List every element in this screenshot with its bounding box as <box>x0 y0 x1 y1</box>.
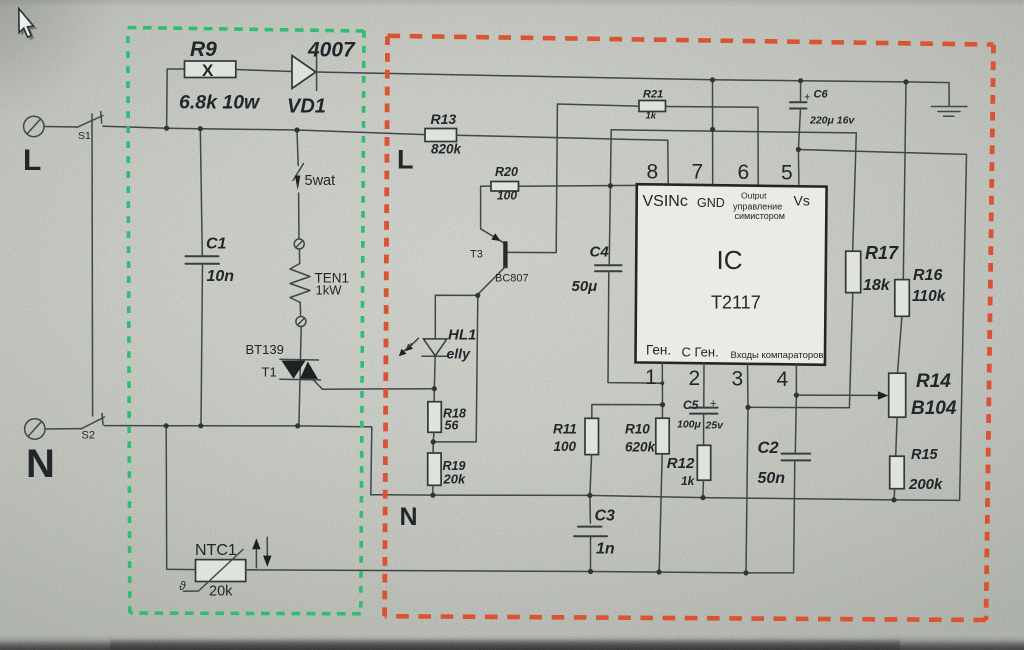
svg-text:Ген.: Ген. <box>646 343 671 358</box>
svg-text:820k: 820k <box>431 142 463 157</box>
svg-text:S1: S1 <box>78 130 91 142</box>
svg-text:VD1: VD1 <box>287 96 326 118</box>
svg-text:18k: 18k <box>863 277 891 294</box>
svg-text:620k: 620k <box>625 440 657 455</box>
svg-text:20k: 20k <box>443 472 466 487</box>
svg-text:R9: R9 <box>190 38 217 61</box>
svg-text:1kW: 1kW <box>316 283 343 298</box>
svg-text:56: 56 <box>445 419 460 433</box>
svg-text:+: + <box>804 92 810 104</box>
svg-text:T3: T3 <box>470 249 483 261</box>
svg-text:X: X <box>202 61 214 80</box>
svg-text:8: 8 <box>647 161 659 184</box>
svg-text:elly: elly <box>447 346 472 362</box>
svg-text:C5: C5 <box>683 398 699 412</box>
svg-text:1k: 1k <box>646 111 657 122</box>
svg-text:20k: 20k <box>209 584 233 600</box>
svg-text:R15: R15 <box>911 447 939 463</box>
svg-text:10n: 10n <box>207 268 235 285</box>
svg-text:6.8k 10w: 6.8k 10w <box>179 92 261 114</box>
svg-text:HL1: HL1 <box>448 327 476 344</box>
svg-text:4007: 4007 <box>307 39 356 62</box>
svg-text:1: 1 <box>645 366 657 389</box>
svg-text:Vs: Vs <box>794 193 810 209</box>
svg-text:NTC1: NTC1 <box>195 542 237 559</box>
svg-text:1n: 1n <box>596 541 615 558</box>
svg-text:7: 7 <box>692 161 704 184</box>
svg-text:4: 4 <box>777 368 789 391</box>
svg-text:L: L <box>397 145 414 175</box>
svg-text:R17: R17 <box>865 243 899 263</box>
svg-text:2: 2 <box>689 367 701 390</box>
svg-text:N: N <box>400 503 418 531</box>
svg-text:+: + <box>710 398 716 410</box>
svg-text:симистором: симистором <box>735 211 785 221</box>
svg-text:50μ: 50μ <box>572 278 598 295</box>
svg-text:5wat: 5wat <box>305 173 336 189</box>
svg-text:T2117: T2117 <box>711 293 761 313</box>
svg-text:L: L <box>23 144 41 177</box>
svg-text:Входы компараторов: Входы компараторов <box>731 350 824 361</box>
svg-text:R14: R14 <box>916 371 951 392</box>
svg-text:R16: R16 <box>913 267 942 284</box>
svg-text:5: 5 <box>781 162 793 185</box>
svg-text:С Ген.: С Ген. <box>682 345 719 360</box>
svg-text:R13: R13 <box>431 111 457 127</box>
svg-text:VSINc: VSINc <box>643 193 688 210</box>
svg-text:C4: C4 <box>590 244 610 261</box>
svg-text:100: 100 <box>554 439 577 454</box>
svg-text:1k: 1k <box>681 474 696 488</box>
svg-text:B104: B104 <box>911 398 957 419</box>
svg-text:C2: C2 <box>758 439 779 457</box>
svg-text:C6: C6 <box>814 89 829 101</box>
svg-text:BC807: BC807 <box>495 273 529 285</box>
svg-text:R20: R20 <box>495 165 518 179</box>
svg-text:N: N <box>26 442 55 486</box>
svg-text:R11: R11 <box>553 422 577 437</box>
svg-text:50n: 50n <box>758 470 786 487</box>
svg-text:220μ 16v: 220μ 16v <box>809 115 855 127</box>
svg-text:S2: S2 <box>82 430 95 442</box>
svg-text:R12: R12 <box>667 455 695 472</box>
svg-text:100: 100 <box>497 189 517 203</box>
svg-text:управление: управление <box>733 202 782 212</box>
svg-text:R21: R21 <box>643 89 663 101</box>
svg-text:Output: Output <box>741 191 767 201</box>
svg-text:C3: C3 <box>595 508 616 525</box>
svg-text:IC: IC <box>717 245 743 275</box>
svg-text:25v: 25v <box>705 420 725 432</box>
svg-text:100μ: 100μ <box>677 419 702 431</box>
svg-text:R10: R10 <box>625 422 650 437</box>
svg-text:C1: C1 <box>206 236 227 253</box>
svg-text:6: 6 <box>738 161 750 184</box>
svg-text:BT139: BT139 <box>246 342 284 357</box>
svg-text:110k: 110k <box>912 288 947 305</box>
svg-text:GND: GND <box>697 196 725 210</box>
svg-text:ϑ: ϑ <box>179 579 186 593</box>
svg-text:T1: T1 <box>262 365 277 380</box>
svg-text:200k: 200k <box>908 476 943 493</box>
svg-text:3: 3 <box>732 368 744 391</box>
